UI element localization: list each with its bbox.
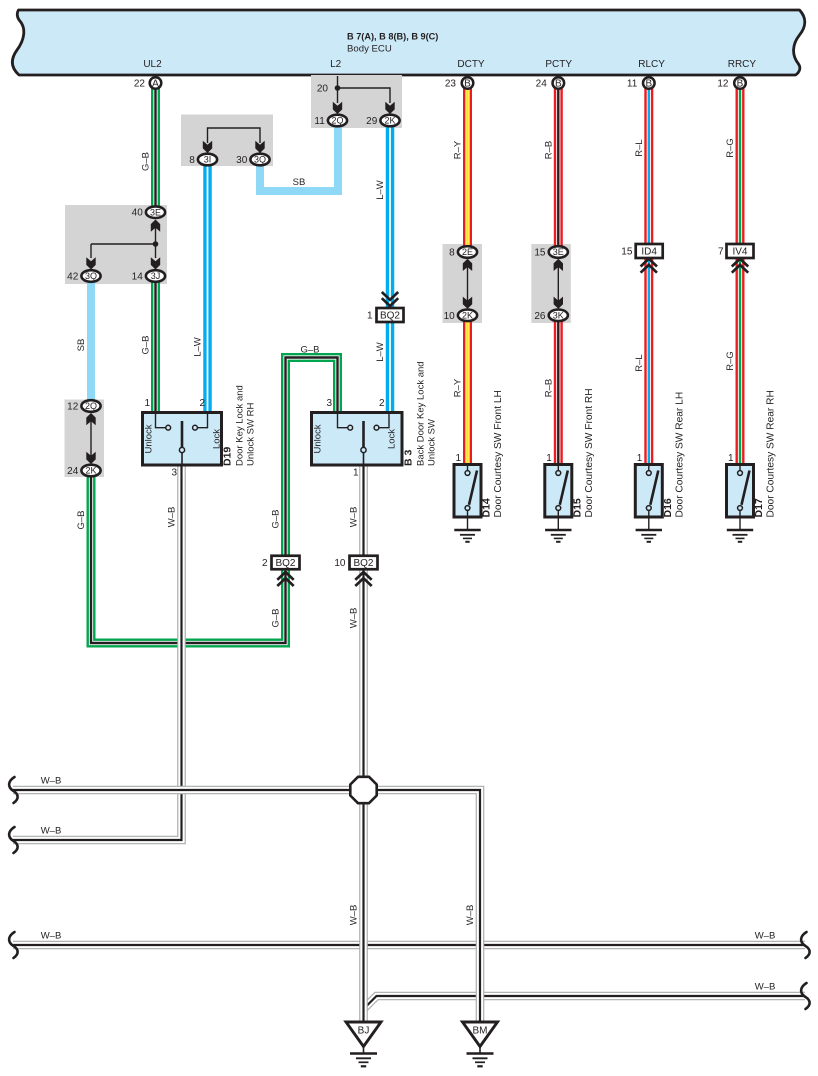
wire R-B from 3K to D15 pin 1 — [554, 320, 563, 466]
svg-text:R–L: R–L — [634, 354, 645, 371]
connector 3K pin 26 — [549, 310, 568, 322]
svg-text:8: 8 — [189, 155, 195, 166]
svg-text:24: 24 — [67, 466, 79, 477]
svg-text:ID4: ID4 — [641, 247, 657, 258]
svg-text:3I: 3I — [204, 155, 212, 165]
svg-text:RRCY: RRCY — [728, 59, 757, 70]
svg-text:R–B: R–B — [543, 141, 554, 159]
svg-text:W–B: W–B — [349, 507, 360, 528]
svg-text:20: 20 — [317, 84, 329, 95]
box5 internal bus 2E to 2K — [467, 266, 469, 302]
chevrons BQ2 pin 10 — [355, 572, 371, 586]
wire break squiggle — [9, 827, 18, 853]
svg-text:Door Courtesy SW Front LH: Door Courtesy SW Front LH — [493, 390, 504, 517]
connector B pin 12 (RRCY) — [734, 77, 746, 89]
connector ID4 pin 15 — [636, 244, 663, 258]
wire L-W from BQ2 pin 1 to B3 pin 2 — [386, 322, 395, 414]
svg-text:W–B: W–B — [41, 776, 62, 787]
svg-text:BM: BM — [473, 1026, 488, 1037]
connector IV4 pin 7 — [727, 244, 754, 258]
svg-text:2Q: 2Q — [331, 116, 343, 126]
wire W-B from D19 pin 3 to left break — [13, 464, 182, 840]
svg-text:B: B — [737, 79, 744, 90]
connector BQ2 pin 1 — [377, 308, 404, 322]
svg-text:PCTY: PCTY — [545, 59, 572, 70]
svg-text:23: 23 — [445, 79, 457, 90]
svg-text:W–B: W–B — [349, 608, 360, 629]
chevrons BQ2 pin 1 — [382, 292, 398, 306]
svg-text:3J: 3J — [151, 271, 161, 281]
svg-text:SB: SB — [76, 339, 87, 352]
switch D19 Door Key Lock and Unlock SW RH — [143, 413, 222, 466]
svg-text:R–G: R–G — [725, 351, 736, 371]
wire SB from 3Q(42) to 2Q(12) — [87, 281, 95, 401]
svg-text:G–B: G–B — [141, 335, 152, 354]
svg-text:12: 12 — [717, 79, 729, 90]
svg-text:10: 10 — [444, 311, 456, 322]
svg-text:W–B: W–B — [465, 905, 476, 926]
wire break squiggle — [9, 777, 18, 803]
connector 3Q pin 42 — [81, 270, 100, 282]
svg-text:B: B — [645, 79, 652, 90]
svg-text:D16: D16 — [662, 498, 674, 517]
wire R-Y from 2K to D14 pin 1 — [463, 320, 472, 466]
connector BQ2 pin 10 — [350, 556, 378, 570]
wire L-W from 3I to D19 pin 2 — [203, 164, 212, 414]
svg-text:D15: D15 — [571, 498, 583, 517]
svg-text:W–B: W–B — [755, 931, 776, 942]
svg-text:3E: 3E — [553, 247, 564, 257]
connector 2K pin 24 — [81, 465, 100, 477]
switch D14 Door Courtesy SW Front LH — [454, 465, 481, 518]
svg-text:7: 7 — [718, 247, 724, 258]
svg-text:L–W: L–W — [193, 337, 204, 357]
svg-text:G–B: G–B — [76, 510, 87, 529]
connector 3Q pin 30 — [250, 154, 269, 166]
box3 internal bus pin20 to 2Q/2K — [338, 76, 391, 103]
svg-text:G–B: G–B — [271, 509, 282, 528]
svg-text:DCTY: DCTY — [457, 59, 485, 70]
svg-text:1: 1 — [728, 453, 734, 464]
svg-text:B: B — [555, 79, 562, 90]
svg-text:BQ2: BQ2 — [353, 558, 373, 569]
wire W-B horizontal to junction octagon — [13, 786, 351, 795]
svg-text:B 7(A), B 8(B), B 9(C): B 7(A), B 8(B), B 9(C) — [347, 32, 438, 42]
svg-text:24: 24 — [536, 79, 548, 90]
svg-text:1: 1 — [637, 453, 643, 464]
svg-text:W–B: W–B — [755, 982, 776, 993]
svg-text:3Q: 3Q — [254, 155, 266, 165]
svg-text:IV4: IV4 — [732, 247, 747, 258]
svg-text:UL2: UL2 — [143, 59, 162, 70]
connector 2K pin 29 — [380, 115, 399, 127]
connector 3I pin 8 — [198, 154, 217, 166]
svg-text:G–B: G–B — [271, 608, 282, 627]
wire G-B from 3J to D19 pin 1 — [151, 281, 160, 414]
svg-text:Lock: Lock — [387, 429, 398, 449]
svg-text:26: 26 — [534, 311, 546, 322]
svg-text:D14: D14 — [481, 498, 493, 517]
switch D17 Door Courtesy SW Rear RH — [727, 465, 754, 518]
svg-text:BQ2: BQ2 — [275, 558, 295, 569]
svg-text:Unlock: Unlock — [144, 424, 155, 453]
svg-text:Unlock SW RH: Unlock SW RH — [246, 403, 257, 466]
svg-text:2K: 2K — [85, 466, 96, 476]
svg-text:3Q: 3Q — [85, 271, 97, 281]
chevrons BQ2 pin 2 — [277, 572, 293, 586]
svg-text:Unlock SW: Unlock SW — [427, 419, 438, 466]
connector A pin 22 (UL2) — [150, 77, 162, 89]
junction block shading box6 — [531, 244, 571, 323]
svg-text:2K: 2K — [384, 116, 395, 126]
svg-text:G–B: G–B — [300, 345, 319, 356]
svg-text:11: 11 — [627, 79, 638, 90]
connector B pin 11 (RLCY) — [643, 77, 655, 89]
svg-text:2E: 2E — [462, 247, 473, 257]
wire W-B from B3 pin 1 via BQ2 pin 10 to octagon — [359, 464, 368, 778]
svg-text:Door Courtesy SW Rear RH: Door Courtesy SW Rear RH — [766, 390, 777, 517]
svg-text:1: 1 — [353, 468, 359, 479]
wire W-B bottom horizontal bus — [13, 941, 805, 950]
svg-text:10: 10 — [334, 558, 346, 569]
svg-text:B 3: B 3 — [403, 450, 415, 467]
svg-text:42: 42 — [67, 272, 79, 283]
svg-text:11: 11 — [314, 116, 325, 127]
svg-text:3: 3 — [326, 398, 332, 409]
ground D16 — [636, 530, 662, 542]
svg-text:R–Y: R–Y — [453, 140, 464, 159]
svg-text:L2: L2 — [330, 59, 342, 70]
svg-text:BQ2: BQ2 — [380, 311, 400, 322]
svg-text:1: 1 — [367, 311, 373, 322]
connector B pin 23 (DCTY) — [462, 77, 474, 89]
wire G-B from ECU UL2 pin 22 to connector 3E — [151, 85, 160, 207]
connector BQ2 pin 2 — [272, 556, 300, 570]
junction block shading box1 — [65, 205, 167, 284]
svg-text:R–Y: R–Y — [453, 378, 464, 397]
box2 internal bus 3I to 3Q — [208, 128, 261, 143]
svg-text:14: 14 — [132, 272, 144, 283]
svg-text:Unlock: Unlock — [313, 424, 324, 453]
svg-text:3E: 3E — [150, 207, 161, 217]
connector 3J pin 14 — [146, 270, 165, 282]
switch D15 Door Courtesy SW Front RH — [545, 465, 572, 518]
svg-text:Lock: Lock — [212, 429, 223, 449]
ground D15 — [545, 530, 571, 542]
connector 2K pin 10 — [458, 310, 477, 322]
switch D16 Door Courtesy SW Rear LH — [635, 465, 662, 518]
svg-text:G–B: G–B — [141, 152, 152, 171]
svg-text:RLCY: RLCY — [638, 59, 665, 70]
switch B3 Back Door Key Lock and Unlock SW — [312, 413, 403, 466]
connector 2E pin 8 — [458, 246, 477, 258]
connector 2Q pin 12 — [81, 400, 100, 412]
svg-text:W–B: W–B — [349, 905, 360, 926]
junction octagon — [350, 777, 376, 803]
wire W-B from octagon to BJ ground — [359, 802, 368, 1022]
svg-text:2: 2 — [262, 558, 268, 569]
svg-text:W–B: W–B — [167, 507, 178, 528]
svg-text:B: B — [464, 79, 471, 90]
svg-text:Back Door Key Lock and: Back Door Key Lock and — [416, 361, 427, 466]
svg-text:2K: 2K — [462, 311, 473, 321]
junction block shading box2 — [181, 115, 273, 167]
svg-text:Door Courtesy SW Rear LH: Door Courtesy SW Rear LH — [674, 392, 685, 518]
wire SB elbow from 3Q(30) to 2Q(11) — [260, 126, 338, 191]
box1 internal bus 3E to 3Q/3J — [91, 227, 156, 258]
svg-text:W–B: W–B — [41, 826, 62, 837]
svg-text:BJ: BJ — [358, 1026, 370, 1037]
ground BM — [463, 1022, 498, 1047]
svg-text:29: 29 — [366, 116, 378, 127]
connector B pin 24 (PCTY) — [553, 77, 565, 89]
svg-text:2: 2 — [199, 398, 205, 409]
svg-text:Door Key Lock and: Door Key Lock and — [235, 385, 246, 466]
wire L-W from 2K(29) to BQ2 pin 1 — [386, 126, 395, 308]
svg-text:Body ECU: Body ECU — [347, 44, 392, 55]
wire R-L from ECU RLCY pin 11 to ID4 — [644, 86, 653, 244]
wire W-B from BJ ground lead to right break — [364, 996, 806, 1009]
wire G-B from 2K(24) via BQ2 pin 2 to B3 pin 3 — [91, 358, 338, 644]
svg-text:D17: D17 — [753, 498, 765, 517]
svg-text:W–B: W–B — [41, 931, 62, 942]
svg-text:Door Courtesy SW Front RH: Door Courtesy SW Front RH — [584, 388, 595, 517]
ground BJ — [346, 1022, 381, 1047]
junction block shading box4 — [65, 400, 105, 478]
Body ECU box — [12, 10, 804, 75]
wire R-L from ID4 to D16 pin 1 — [644, 258, 653, 466]
connector 3E pin 40 — [146, 206, 165, 218]
svg-text:D19: D19 — [222, 447, 234, 466]
svg-text:1: 1 — [546, 453, 552, 464]
box4 internal bus 2Q to 2K — [90, 420, 92, 458]
wire break squiggle — [801, 983, 810, 1009]
svg-text:12: 12 — [67, 402, 79, 413]
connector 3E pin 15 — [549, 246, 568, 258]
svg-text:15: 15 — [621, 247, 633, 258]
svg-text:L–W: L–W — [375, 342, 386, 362]
wire R-G from IV4 to D17 pin 1 — [736, 258, 745, 466]
wire break squiggle — [9, 932, 18, 958]
wire R-B from ECU PCTY pin 24 to 3E — [554, 86, 563, 247]
svg-text:3K: 3K — [553, 311, 564, 321]
svg-text:R–L: R–L — [634, 139, 645, 156]
svg-text:R–G: R–G — [725, 138, 736, 158]
svg-text:SB: SB — [293, 177, 306, 188]
junction block shading box3 — [311, 75, 402, 128]
svg-text:L–W: L–W — [375, 180, 386, 200]
ground D17 — [727, 530, 753, 542]
svg-text:3: 3 — [171, 468, 177, 479]
box6 internal bus 3E to 3K — [557, 266, 559, 302]
ground D14 — [454, 530, 480, 542]
svg-text:8: 8 — [449, 248, 455, 259]
svg-text:1: 1 — [455, 453, 461, 464]
svg-text:15: 15 — [534, 248, 546, 259]
svg-text:A: A — [152, 79, 159, 90]
svg-text:40: 40 — [132, 208, 144, 219]
svg-text:22: 22 — [134, 79, 146, 90]
chevrons IV4 — [732, 259, 748, 273]
svg-text:2: 2 — [379, 398, 385, 409]
svg-text:30: 30 — [236, 155, 248, 166]
svg-text:2Q: 2Q — [85, 401, 97, 411]
wire R-G from ECU RRCY pin 12 to IV4 — [736, 86, 745, 244]
wire R-Y from ECU DCTY pin 23 to 2E — [463, 86, 472, 247]
svg-text:R–B: R–B — [543, 379, 554, 397]
wire break squiggle — [801, 932, 810, 958]
connector 2Q pin 11 — [328, 115, 347, 127]
chevrons ID4 — [641, 259, 657, 273]
junction block shading box5 — [443, 244, 483, 323]
svg-text:1: 1 — [144, 398, 150, 409]
wire W-B from octagon to BM ground — [376, 790, 480, 1022]
